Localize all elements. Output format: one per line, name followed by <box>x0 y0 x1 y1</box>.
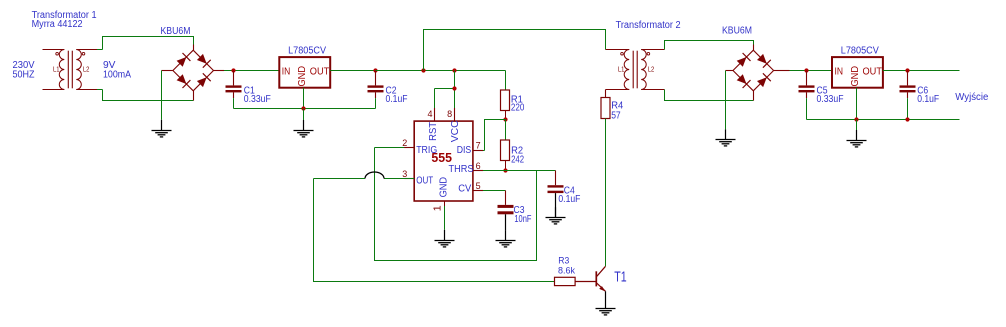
svg-text:DIS: DIS <box>457 144 472 156</box>
svg-text:0.1uF: 0.1uF <box>917 93 939 105</box>
svg-text:242: 242 <box>511 154 524 166</box>
svg-text:0.33uF: 0.33uF <box>817 93 844 105</box>
svg-text:0.1uF: 0.1uF <box>558 193 580 205</box>
svg-text:6: 6 <box>476 161 481 171</box>
svg-text:0.1uF: 0.1uF <box>386 93 408 105</box>
svg-text:GND: GND <box>438 177 450 198</box>
svg-text:OUT: OUT <box>863 66 883 78</box>
svg-text:CV: CV <box>458 182 471 194</box>
svg-text:VCC: VCC <box>449 120 461 142</box>
svg-text:10nF: 10nF <box>514 213 531 225</box>
svg-text:2: 2 <box>402 138 407 148</box>
svg-text:L2: L2 <box>648 67 655 74</box>
svg-text:100mA: 100mA <box>103 69 131 81</box>
svg-text:L7805CV: L7805CV <box>288 46 326 57</box>
svg-text:OUT: OUT <box>310 66 330 78</box>
svg-text:KBU6M: KBU6M <box>722 26 752 37</box>
svg-text:3: 3 <box>402 169 407 179</box>
svg-text:5: 5 <box>476 181 481 191</box>
svg-text:GND: GND <box>849 66 861 87</box>
svg-text:Myrra 44122: Myrra 44122 <box>32 19 83 30</box>
svg-text:THRS: THRS <box>449 163 474 175</box>
svg-text:GND: GND <box>296 66 308 87</box>
svg-text:L7805CV: L7805CV <box>841 46 879 57</box>
svg-text:KBU6M: KBU6M <box>161 26 191 37</box>
svg-text:L2: L2 <box>83 67 90 74</box>
svg-text:57: 57 <box>611 109 621 121</box>
svg-text:Transformator 2: Transformator 2 <box>616 20 681 31</box>
svg-text:1: 1 <box>432 205 444 211</box>
svg-text:IN: IN <box>282 66 291 78</box>
svg-text:555: 555 <box>431 150 452 165</box>
svg-text:0.33uF: 0.33uF <box>244 93 271 105</box>
svg-text:T1: T1 <box>614 270 626 286</box>
svg-text:IN: IN <box>835 66 844 78</box>
svg-text:7: 7 <box>476 141 481 151</box>
svg-text:RST: RST <box>427 121 439 141</box>
svg-text:220: 220 <box>511 102 525 114</box>
svg-text:8: 8 <box>447 109 452 119</box>
svg-text:OUT: OUT <box>416 175 433 187</box>
svg-text:8.6k: 8.6k <box>558 265 575 276</box>
svg-text:L1: L1 <box>618 67 625 74</box>
svg-text:L1: L1 <box>53 67 60 74</box>
svg-text:Wyjście: Wyjście <box>955 91 988 103</box>
svg-text:4: 4 <box>427 109 432 119</box>
svg-text:50HZ: 50HZ <box>13 69 35 81</box>
